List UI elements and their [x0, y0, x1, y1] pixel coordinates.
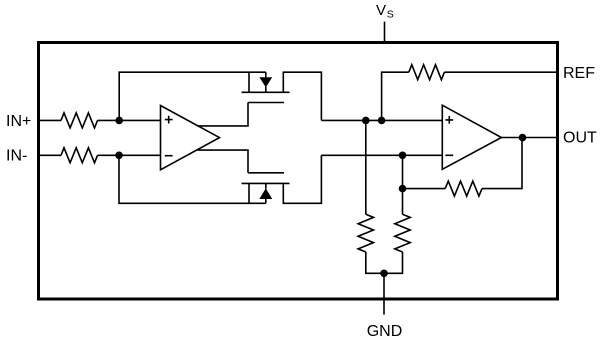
wire IN+ pin to R1	[40, 119, 61, 121]
wire R4 to ground node	[366, 252, 384, 273]
transistor Q2 gate bar	[248, 172, 284, 174]
wire ground node to GND pin	[383, 273, 385, 300]
junction dot ground node	[380, 270, 388, 278]
transistor Q2 channel bar	[242, 182, 290, 184]
wire R1 to op-amp A1 noninverting input	[98, 119, 161, 121]
wire Q2 drain to node B	[283, 155, 321, 203]
svg-text:GND: GND	[367, 323, 403, 340]
op-amp A2 minus sign	[445, 154, 453, 156]
junction dot node B / feedback tap	[399, 152, 407, 160]
resistor R6 (feedback)	[445, 181, 482, 196]
wire IN+ node to Q1 source rail	[119, 72, 266, 120]
junction dot IN+ node	[115, 117, 123, 125]
svg-text:IN-: IN-	[6, 148, 27, 165]
op-amp A2 plus sign	[445, 116, 453, 124]
wire node A to R3	[382, 72, 409, 120]
wire op-amp A1 output to Q2 gate	[198, 150, 249, 173]
junction dot node A / R4 tap	[362, 117, 370, 125]
transistor Q2 body arrow	[265, 183, 267, 203]
wire node A down to R4	[365, 120, 367, 214]
wire op-amp A2 output to OUT pin	[501, 137, 556, 139]
resistor R4 (gain set, left)	[358, 214, 373, 252]
wire IN- pin to R2	[40, 154, 61, 156]
wire R5 to ground node	[384, 252, 403, 273]
wire node B down to feedback rail	[402, 155, 404, 214]
op-amp A1 minus sign	[165, 155, 173, 157]
junction dot IN- node	[115, 152, 123, 160]
svg-text:REF: REF	[563, 65, 595, 82]
wire node B to op-amp A2 inverting input	[321, 154, 442, 156]
transistor Q1 source lead	[248, 72, 250, 92]
pin VS lead	[384, 22, 386, 41]
junction dot output node	[519, 134, 527, 142]
resistor R1 (IN+ input)	[61, 113, 98, 128]
resistor R5 (gain set, right)	[395, 214, 410, 252]
op-amp A1	[161, 106, 220, 170]
resistor R2 (IN- input)	[61, 148, 98, 163]
wire node A to op-amp A2 noninverting input	[321, 119, 442, 121]
wire op-amp A1 output to Q1 gate	[198, 103, 249, 126]
svg-text:S: S	[387, 8, 394, 20]
transistor Q1 gate bar	[248, 102, 284, 104]
transistor Q1 body arrow	[265, 72, 267, 92]
svg-text:OUT: OUT	[563, 130, 597, 147]
op-amp A1 plus sign	[165, 116, 173, 124]
wire R6 to output node	[482, 138, 522, 189]
wire R3 to REF pin	[444, 71, 556, 73]
op-amp A2	[442, 105, 501, 169]
junction dot feedback / R5 tap	[399, 185, 407, 193]
pin GND lead	[383, 301, 385, 315]
svg-text:V: V	[376, 2, 386, 19]
transistor Q1 channel bar	[242, 91, 290, 93]
wire R2 to op-amp A1 inverting input	[98, 154, 161, 156]
transistor Q2 source lead	[248, 183, 250, 203]
svg-text:IN+: IN+	[6, 113, 31, 130]
IC package outline	[39, 43, 558, 300]
wire IN- node to Q2 source rail	[119, 155, 266, 203]
wire feedback tap to R6	[403, 188, 446, 190]
wire Q1 drain to summing node A	[283, 72, 321, 120]
junction dot node A / REF tap	[378, 117, 386, 125]
resistor R3 (REF)	[409, 65, 445, 80]
